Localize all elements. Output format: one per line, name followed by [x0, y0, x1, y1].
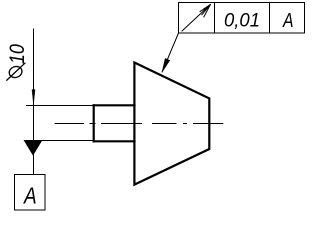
svg-text:0,01: 0,01 — [224, 9, 260, 31]
svg-text:10: 10 — [6, 44, 29, 64]
svg-text:A: A — [282, 10, 293, 32]
svg-text:A: A — [22, 182, 36, 208]
